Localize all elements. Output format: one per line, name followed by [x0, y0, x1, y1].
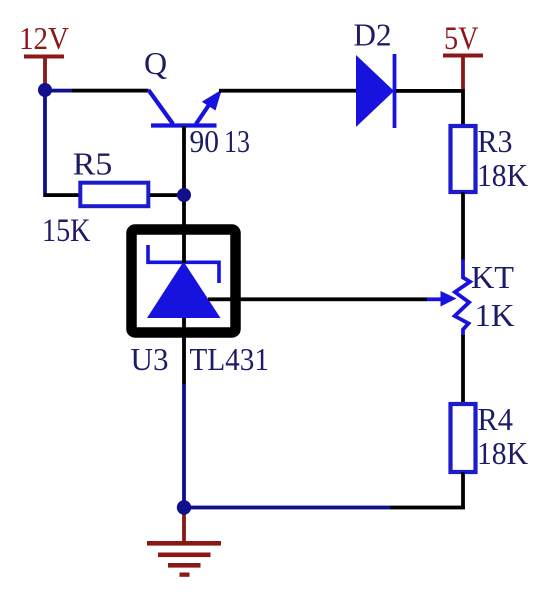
wire bottom horizontal (navy part) [184, 506, 390, 510]
svg-text:15K: 15K [42, 213, 91, 249]
ground bar 1 [147, 541, 221, 546]
regulator U3 TL431 box [132, 230, 236, 333]
wire base vertical down to node B [182, 126, 186, 195]
svg-text:KT: KT [471, 259, 514, 295]
transistor Q emitter arrowhead [202, 90, 222, 111]
resistor R5 [80, 183, 148, 207]
wire potentiometer to R4 [461, 335, 465, 404]
svg-text:13: 13 [224, 123, 250, 159]
svg-text:Q: Q [144, 45, 167, 81]
svg-text:12V: 12V [19, 20, 69, 56]
regulator U3 TL431 cathode bent bar [148, 245, 219, 283]
wire R4 down [461, 472, 465, 509]
svg-text:TL431: TL431 [190, 341, 270, 377]
potentiometer KT zigzag [455, 260, 470, 337]
wire 12V stem [43, 57, 47, 90]
ground bar 4 [180, 573, 190, 577]
ground bar 3 [168, 563, 201, 568]
wire REF to arrow (black part) [208, 297, 427, 301]
svg-text:18K: 18K [477, 435, 528, 471]
wire node A to transistor (black part) [72, 89, 149, 93]
svg-text:1K: 1K [475, 297, 515, 333]
svg-text:5V: 5V [444, 21, 479, 57]
transistor Q emitter slant [196, 99, 213, 124]
wire cathode vertical into box [182, 195, 186, 263]
wire corner down to R3 [461, 89, 465, 126]
power 12V bar symbol [24, 55, 64, 59]
svg-text:R4: R4 [478, 401, 514, 437]
wire R5 right lead [150, 193, 184, 197]
wire bottom horizontal (black part) [390, 506, 465, 510]
svg-text:90: 90 [190, 123, 220, 159]
wire REF to arrow (blue part) [427, 297, 443, 301]
svg-text:U3: U3 [131, 341, 169, 377]
resistor R3 [451, 126, 476, 192]
transistor Q collector slant [149, 90, 174, 124]
wire transistor to diode [219, 89, 357, 93]
diode D2 triangle [356, 55, 394, 127]
diode D2 cathode bar [393, 54, 397, 128]
wire node A to right (navy part) [45, 89, 72, 93]
resistor R4 [451, 404, 476, 472]
potentiometer KT wiper arrowhead [441, 291, 457, 307]
wire to R5 left lead [44, 193, 79, 197]
ground bar 2 [158, 553, 211, 558]
wire 5V stem [461, 56, 465, 89]
wire anode vertical (navy part) [182, 384, 186, 508]
wire node A down [43, 90, 47, 197]
power 5V bar symbol [443, 54, 483, 58]
svg-text:R5: R5 [73, 146, 113, 182]
svg-text:D2: D2 [354, 17, 392, 53]
wire ground stem [182, 507, 186, 542]
wire anode vertical out of box (black part) [182, 318, 186, 384]
svg-text:R3: R3 [478, 123, 513, 159]
node C junction dot [177, 500, 191, 514]
transistor Q base bar [151, 123, 217, 127]
wire diode to 5V corner [396, 89, 465, 93]
wire R3 to potentiometer [461, 192, 465, 260]
svg-text:18K: 18K [477, 157, 528, 193]
regulator U3 TL431 triangle [147, 262, 221, 319]
node A junction dot [38, 83, 52, 97]
node B junction dot [177, 188, 191, 202]
